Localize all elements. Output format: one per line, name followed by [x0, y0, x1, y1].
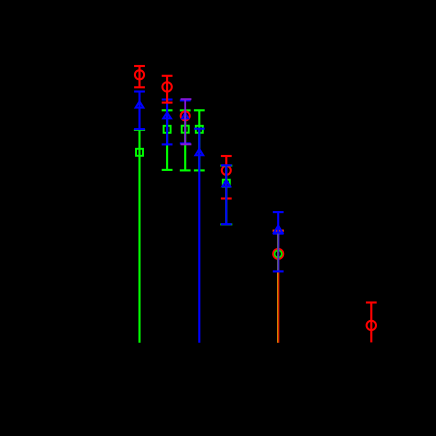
point A green square marker [136, 149, 143, 156]
point D green error bar line [198, 110, 200, 170]
point C green error bar line [184, 110, 186, 170]
point E red error bar line [225, 156, 227, 199]
point B red top cap [162, 75, 173, 77]
point F blue bottom cap [273, 270, 284, 272]
point G red circle marker [367, 321, 376, 330]
point F overlap line violet half (blue over red) [278, 234, 280, 272]
point F blue error bar line upper [277, 212, 279, 234]
point D blue error bar line (clipped at axis) [198, 129, 200, 343]
point F green inner circle marker [275, 250, 282, 257]
point D green top cap [194, 109, 205, 111]
point A red top cap [134, 65, 145, 67]
point E green error bar line [225, 166, 227, 225]
point G red top cap [366, 301, 377, 303]
point C purple error bar line [184, 99, 186, 144]
point F orange lower line red half (clipped at axis) [278, 271, 280, 342]
point F orange lower line yellow half (clipped at axis) [277, 271, 279, 342]
point E green bottom cap [220, 223, 232, 225]
point G red error bar line (clipped at axis) [370, 303, 372, 343]
point B green bottom cap [162, 169, 173, 171]
point C blue top cap [180, 99, 191, 101]
point E red circle marker [222, 166, 231, 175]
point E blue error bar line [225, 165, 227, 224]
point B red bottom cap [162, 102, 173, 104]
point F overlap line gray half (blue over yellow) [277, 234, 279, 272]
point A blue bottom cap [134, 128, 145, 130]
point C purple bottom cap [181, 143, 192, 145]
point D green bottom cap [194, 169, 205, 171]
point C green square marker [182, 126, 189, 133]
point B blue bottom cap [162, 143, 173, 145]
point E red top cap [221, 155, 232, 157]
point A red error bar line [138, 66, 140, 87]
point B blue error bar line [166, 100, 168, 145]
point C red circle marker [181, 111, 190, 120]
point C green top cap [180, 109, 191, 111]
point B green top cap [162, 109, 173, 111]
point A green top cap [134, 129, 145, 131]
point F blue triangle marker [274, 226, 283, 233]
point D blue top cap [194, 128, 205, 130]
point E green square marker [223, 180, 230, 187]
point E red bottom cap [221, 197, 232, 199]
point C purple top cap [181, 98, 192, 100]
point B red error bar line [166, 76, 168, 103]
point B green square marker [164, 126, 171, 133]
point A blue top cap [134, 90, 145, 92]
point B blue triangle marker [163, 113, 171, 119]
point E green top cap [220, 165, 232, 167]
point E blue triangle marker [222, 180, 230, 186]
point A blue triangle marker [136, 101, 144, 107]
point F blue top cap [273, 211, 284, 213]
point F red outer circle marker [273, 249, 283, 259]
point A red circle marker [135, 70, 144, 79]
point C green bottom cap [180, 169, 191, 171]
point B red circle marker [162, 82, 171, 91]
point A red bottom cap [134, 86, 145, 88]
point F blue middle cap [273, 233, 284, 235]
point C blue bottom cap [180, 142, 191, 144]
point E blue top cap [221, 164, 232, 166]
point A green error bar line (clipped at axis) [138, 130, 140, 343]
point C blue triangle marker [182, 113, 189, 119]
point A blue error bar line [138, 92, 140, 130]
point E blue bottom cap [221, 223, 232, 225]
point F orange top cap (under blue triangle) [273, 230, 284, 232]
point B blue top cap [162, 98, 173, 100]
point B green error bar line [166, 110, 168, 170]
point D green square marker [196, 126, 203, 133]
point D blue triangle marker [195, 149, 203, 155]
